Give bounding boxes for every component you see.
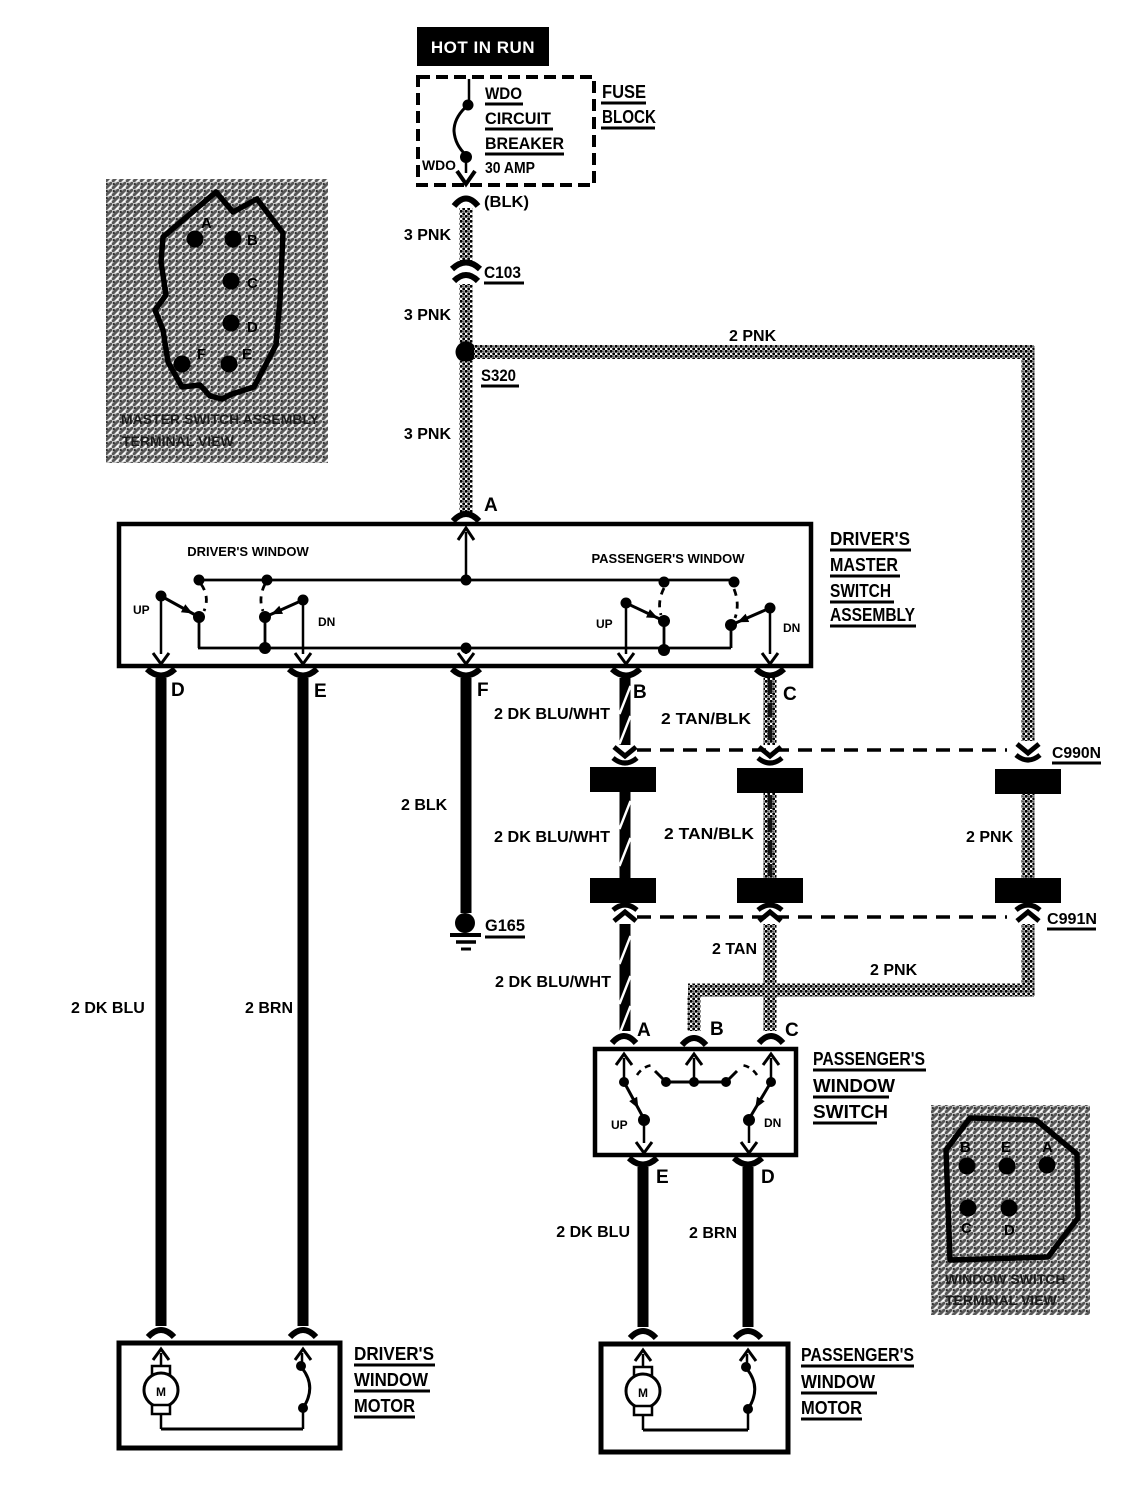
svg-text:MASTER: MASTER: [830, 555, 898, 575]
connector block B upper: [590, 767, 656, 792]
pin F: [174, 356, 191, 373]
wire 2 TAN/BLK segment 2: [764, 793, 777, 878]
wire 2 PNK right vertical: [1022, 346, 1035, 741]
svg-text:CIRCUIT: CIRCUIT: [485, 109, 552, 128]
svg-text:E: E: [1001, 1139, 1011, 1156]
svg-text:D: D: [761, 1167, 775, 1188]
svg-text:A: A: [201, 215, 212, 232]
node top rail left: [194, 575, 205, 586]
wire 2 BRN (passenger D): [743, 1167, 754, 1327]
svg-text:MOTOR: MOTOR: [801, 1398, 862, 1418]
node top rail 4: [659, 577, 670, 588]
pin E: [221, 356, 238, 373]
svg-text:F: F: [477, 680, 489, 701]
terminal D: [147, 669, 175, 676]
node feed junction: [461, 575, 472, 586]
svg-text:M: M: [156, 1385, 166, 1399]
passenger DN switch: [765, 603, 776, 614]
passenger switch DN contact: [766, 1077, 776, 1087]
svg-text:B: B: [710, 1019, 724, 1040]
top rail wire: [199, 579, 734, 582]
node top rail right: [729, 577, 740, 588]
connector halves at C: [759, 747, 781, 756]
terminal into motor E side: [290, 1330, 316, 1337]
pin A: [187, 231, 204, 248]
wire 2 PNK segment: [1022, 794, 1035, 878]
wire B into switch: [686, 1054, 702, 1065]
svg-text:D: D: [1004, 1222, 1015, 1239]
pin B: [959, 1158, 976, 1175]
pin C: [223, 273, 240, 290]
node bottom rail 3: [658, 644, 670, 656]
wire 2 DK BLU (D): [156, 678, 167, 1326]
wire 2 TAN segment 3: [764, 924, 777, 1031]
svg-text:A: A: [1042, 1139, 1053, 1156]
svg-text:2 DK BLU/WHT: 2 DK BLU/WHT: [494, 829, 610, 846]
wire 2 TAN/BLK segment 1: [764, 678, 777, 745]
window switch terminal view panel: [931, 1105, 1090, 1315]
svg-text:DN: DN: [764, 1116, 781, 1130]
svg-text:2 DK BLU/WHT: 2 DK BLU/WHT: [495, 974, 611, 991]
svg-text:TERMINAL VIEW: TERMINAL VIEW: [122, 433, 235, 449]
svg-text:WDO: WDO: [422, 157, 456, 173]
svg-text:E: E: [314, 681, 327, 702]
drivers window motor box: [119, 1343, 340, 1448]
pin E: [999, 1158, 1016, 1175]
wire F drop inside box: [465, 648, 468, 654]
pin B: [225, 231, 242, 248]
svg-text:ASSEMBLY: ASSEMBLY: [830, 605, 915, 625]
connector block B lower: [590, 878, 656, 903]
pin D: [1001, 1200, 1018, 1217]
wire 3 PNK segment 2: [460, 284, 473, 343]
terminal E passenger switch: [629, 1158, 657, 1165]
wire 2 BLK (F): [461, 678, 472, 913]
connector C103: [452, 263, 480, 270]
svg-text:C: C: [785, 1020, 799, 1041]
svg-text:3 PNK: 3 PNK: [404, 227, 452, 244]
svg-text:F: F: [197, 346, 206, 363]
svg-text:D: D: [171, 680, 185, 701]
svg-text:M: M: [638, 1386, 648, 1400]
svg-text:2 DK BLU: 2 DK BLU: [556, 1224, 630, 1241]
wire 2 DK BLU/WHT segment 1: [620, 678, 631, 745]
svg-text:2 PNK: 2 PNK: [870, 962, 918, 979]
svg-text:PASSENGER'S: PASSENGER'S: [813, 1049, 925, 1069]
wire 2 PNK horizontal to passenger B: [688, 984, 1034, 997]
svg-text:BLOCK: BLOCK: [602, 107, 656, 127]
svg-text:UP: UP: [596, 617, 613, 631]
svg-text:S320: S320: [481, 366, 516, 385]
svg-text:C: C: [961, 1220, 972, 1237]
svg-text:DRIVER'S: DRIVER'S: [354, 1344, 434, 1364]
ground G165: [455, 913, 475, 933]
svg-text:E: E: [242, 346, 252, 363]
svg-text:PASSENGER'S WINDOW: PASSENGER'S WINDOW: [591, 551, 745, 566]
terminal E: [289, 669, 317, 676]
wire C into switch: [763, 1054, 779, 1065]
svg-text:C: C: [247, 275, 258, 292]
master switch connector outline: [155, 192, 283, 399]
driver master switch assembly box: [119, 524, 811, 666]
svg-text:2 PNK: 2 PNK: [729, 328, 777, 345]
terminal F: [452, 669, 480, 676]
node bottom rail F: [461, 643, 472, 654]
window switch connector outline: [946, 1118, 1078, 1260]
bus wire inside switch: [666, 1081, 726, 1084]
wire 3 PNK segment 3: [460, 361, 473, 513]
svg-text:3 PNK: 3 PNK: [404, 426, 452, 443]
dashed connector line C991N level: [637, 915, 1007, 919]
wire from A into switch: [465, 532, 468, 580]
svg-text:(BLK): (BLK): [484, 194, 529, 211]
svg-text:2 BLK: 2 BLK: [401, 797, 448, 814]
terminal B passenger switch: [682, 1038, 706, 1045]
svg-text:C103: C103: [484, 263, 521, 282]
connector halves at B: [614, 747, 636, 756]
svg-text:B: B: [960, 1139, 971, 1156]
svg-text:MASTER SWITCH ASSEMBLY: MASTER SWITCH ASSEMBLY: [121, 411, 320, 427]
svg-text:3 PNK: 3 PNK: [404, 307, 452, 324]
svg-text:2 DK BLU/WHT: 2 DK BLU/WHT: [494, 706, 610, 723]
connector block right upper: [995, 769, 1061, 794]
svg-text:C: C: [783, 684, 797, 705]
circuit breaker WDO 30A symbol: [468, 79, 471, 101]
wire 2 DK BLU/WHT segment 3: [620, 924, 631, 1031]
svg-text:D: D: [247, 319, 258, 336]
svg-text:2 BRN: 2 BRN: [689, 1225, 737, 1242]
svg-text:FUSE: FUSE: [602, 82, 646, 102]
terminal B: [612, 669, 640, 676]
passenger switch UP contact: [619, 1077, 629, 1087]
pin A: [1039, 1157, 1056, 1174]
svg-text:SWITCH: SWITCH: [813, 1102, 888, 1122]
bottom rail wire: [198, 647, 731, 650]
svg-text:C991N: C991N: [1047, 911, 1097, 928]
wire A into switch: [616, 1054, 632, 1065]
pin C: [960, 1200, 977, 1217]
splice S320: [456, 342, 477, 363]
fuse block dashed box: [418, 77, 594, 185]
svg-text:WINDOW SWITCH: WINDOW SWITCH: [945, 1271, 1066, 1287]
connector block C upper: [737, 768, 803, 793]
terminal A passenger switch: [612, 1036, 636, 1043]
motor circuit breaker: [298, 1403, 308, 1413]
wire 2 DK BLU (passenger E): [638, 1167, 649, 1327]
connector block C lower: [737, 878, 803, 903]
terminal arrow below fuse block: [454, 199, 478, 207]
svg-text:PASSENGER'S: PASSENGER'S: [801, 1345, 914, 1365]
svg-text:E: E: [656, 1167, 669, 1188]
wire 2 PNK down to corner: [1022, 924, 1035, 996]
node top rail 2: [262, 575, 273, 586]
svg-text:WINDOW: WINDOW: [801, 1372, 875, 1392]
terminal D passenger switch: [734, 1158, 762, 1165]
hot-in-run power label: [417, 27, 549, 66]
svg-text:DN: DN: [783, 621, 800, 635]
wire 2 PNK horizontal to right: [474, 345, 1034, 359]
svg-text:WINDOW: WINDOW: [354, 1370, 428, 1390]
svg-text:MOTOR: MOTOR: [354, 1396, 415, 1416]
svg-text:A: A: [484, 495, 498, 516]
svg-text:2 TAN: 2 TAN: [712, 941, 757, 958]
svg-text:2 TAN/BLK: 2 TAN/BLK: [664, 826, 754, 843]
motor internal wire: [643, 1429, 748, 1432]
motor internal wire: [161, 1428, 303, 1431]
svg-text:2 DK BLU: 2 DK BLU: [71, 1000, 145, 1017]
passengers window motor box: [601, 1344, 788, 1452]
terminal C passenger switch: [759, 1036, 783, 1043]
svg-text:B: B: [247, 232, 258, 249]
svg-text:2 TAN/BLK: 2 TAN/BLK: [661, 711, 751, 728]
connector halves below C block: [758, 905, 782, 910]
svg-text:HOT IN RUN: HOT IN RUN: [431, 38, 535, 57]
svg-text:A: A: [637, 1020, 651, 1041]
svg-text:UP: UP: [611, 1118, 628, 1132]
svg-text:SWITCH: SWITCH: [830, 581, 891, 601]
wire 2 BRN (E): [298, 678, 309, 1326]
svg-text:C990N: C990N: [1052, 745, 1101, 762]
master switch terminal view panel: [106, 179, 328, 463]
svg-text:DRIVER'S: DRIVER'S: [830, 529, 910, 549]
svg-text:WDO: WDO: [485, 84, 522, 103]
motor M2: [642, 1354, 645, 1367]
wire 2 PNK drop to B: [688, 996, 701, 1031]
connector C990N halves: [1017, 744, 1039, 753]
svg-text:TERMINAL VIEW: TERMINAL VIEW: [945, 1292, 1058, 1308]
terminal into motor E side: [630, 1331, 656, 1338]
svg-text:G165: G165: [485, 916, 525, 935]
dashed connector line C990N level: [637, 748, 1007, 752]
terminal into motor D side: [735, 1331, 761, 1338]
svg-text:WINDOW: WINDOW: [813, 1076, 895, 1096]
svg-text:30 AMP: 30 AMP: [485, 160, 535, 177]
svg-text:DN: DN: [318, 615, 335, 629]
passenger UP switch: [621, 598, 632, 609]
motor M1: [160, 1353, 163, 1366]
svg-text:B: B: [633, 682, 647, 703]
connector C991N halves: [1016, 905, 1040, 910]
wire 2 DK BLU/WHT segment 2: [620, 792, 631, 878]
connector block right lower: [995, 878, 1061, 903]
svg-text:BREAKER: BREAKER: [485, 134, 564, 153]
svg-text:2 BRN: 2 BRN: [245, 1000, 293, 1017]
svg-text:2 PNK: 2 PNK: [966, 829, 1014, 846]
motor circuit breaker: [743, 1404, 753, 1414]
wire 3 PNK segment 1: [460, 208, 473, 262]
svg-text:UP: UP: [133, 603, 150, 617]
node bottom rail 1: [259, 642, 271, 654]
terminal C: [756, 669, 784, 676]
driver DN switch: [298, 595, 309, 606]
terminal into motor D side: [148, 1330, 174, 1337]
svg-text:DRIVER'S WINDOW: DRIVER'S WINDOW: [187, 544, 309, 559]
passenger window switch box: [595, 1049, 796, 1155]
driver UP switch: [156, 591, 167, 602]
connector halves below B block: [613, 905, 637, 910]
pin D: [223, 315, 240, 332]
